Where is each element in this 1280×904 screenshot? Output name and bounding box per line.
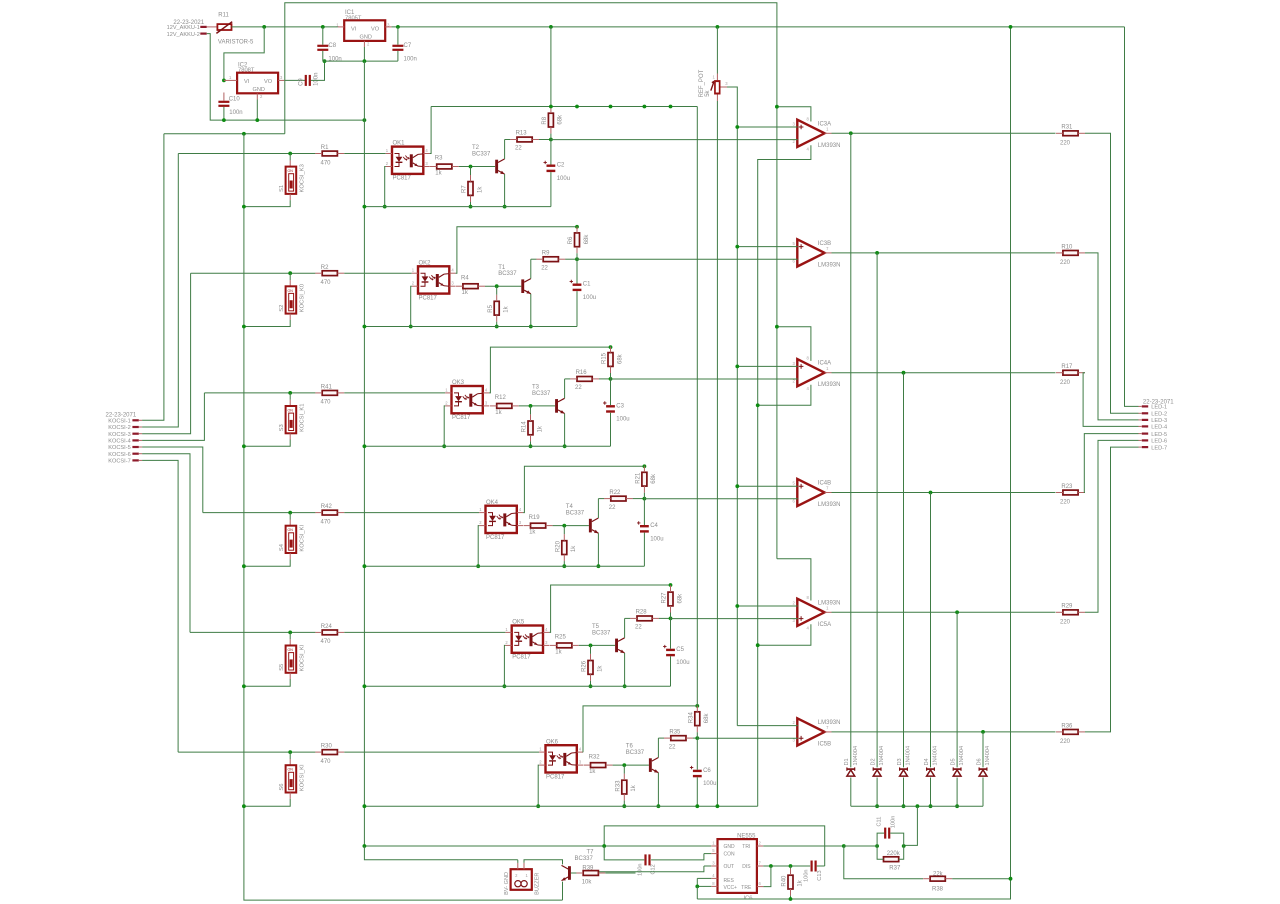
junction IC4A pin4 on GND bus [756, 403, 760, 407]
svg-text:S4: S4 [279, 543, 285, 551]
svg-text:LED-5: LED-5 [1151, 432, 1167, 438]
junction IC2 GND row [255, 118, 259, 122]
wire GND row ch6 [364, 805, 757, 807]
svg-text:BC337: BC337 [592, 630, 611, 636]
wire R39 to NE555 OUT [605, 872, 635, 874]
svg-text:KOCSI_K1: KOCSI_K1 [300, 404, 306, 432]
svg-text:BC337: BC337 [472, 152, 491, 158]
junction GND row / main GND vertical [363, 118, 367, 122]
text 12V_AKKU-1 [167, 25, 200, 31]
wire R11 to main 5V rail [232, 26, 1125, 28]
wire C11 branch [877, 833, 904, 846]
text battery connector name [173, 20, 204, 26]
svg-text:D5: D5 [951, 758, 957, 765]
junction D2 bottom row [875, 804, 879, 808]
svg-text:OK3: OK3 [452, 380, 465, 386]
wire R23 to LED-5 [1084, 434, 1138, 493]
wire T7 collector to buzzer [524, 860, 563, 865]
wire R40 to 5V run [790, 896, 792, 899]
junction rail collector node ch6 [695, 736, 699, 740]
svg-text:R21: R21 [636, 472, 642, 484]
pin KOCSI-4 [108, 439, 142, 445]
transistor T7 BC337 [562, 849, 595, 880]
transistor T1 BC337 [498, 265, 531, 294]
wire GND row ch5 [364, 685, 670, 687]
svg-text:VO: VO [264, 79, 273, 85]
svg-text:1k: 1k [495, 410, 502, 416]
wire R29 to LED-6 [1085, 440, 1139, 612]
pin KOCSI-6 [108, 452, 142, 458]
op-amp comparator IC4A LM393N [793, 359, 841, 388]
svg-text:R2: R2 [321, 265, 329, 271]
wire + ref input IC4B [737, 485, 798, 487]
wire rail segments ch5 [670, 585, 672, 686]
junction IC4A pin8 [775, 325, 779, 329]
junction R20 GND row [562, 564, 566, 568]
wire rail segments ch1 [550, 107, 552, 207]
ic IC1 7805T box [336, 10, 390, 47]
svg-text:68k: 68k [617, 353, 623, 364]
wire NE555 DIS pin [757, 865, 810, 867]
resistor R9 22 [536, 250, 565, 271]
junction IC5A pin4 on GND bus [756, 643, 760, 647]
wire signal input IC3A [551, 139, 798, 141]
junction emitter GND row ch6 [657, 804, 661, 808]
svg-text:R31: R31 [1061, 125, 1073, 131]
svg-text:R6: R6 [568, 236, 574, 244]
svg-text:KOCSI-3: KOCSI-3 [108, 432, 130, 438]
resistor R31 220 [1056, 125, 1085, 147]
wire KOCSI-7 riser [142, 460, 178, 752]
resistor R6 68k [568, 226, 590, 253]
pin KOCSI-5 [108, 445, 142, 451]
svg-text:68k: 68k [651, 473, 657, 484]
svg-text:C11: C11 [876, 817, 882, 827]
junction S5 bottom on S-bus [242, 684, 246, 688]
wire R16 to rail [599, 378, 611, 380]
wire REF_POT wiper [721, 87, 738, 726]
wire output IC3B [825, 252, 1056, 254]
wire GND loop over NE555 [604, 826, 825, 866]
wire Vcc distribution bus [431, 106, 697, 108]
svg-text:KOCSI_KI: KOCSI_KI [300, 764, 306, 791]
pin LED-2 [1139, 412, 1168, 418]
potentiometer REF_POT 5k [699, 69, 728, 97]
junction rail collector node ch3 [609, 377, 613, 381]
svg-text:100n: 100n [404, 56, 417, 62]
svg-text:1k: 1k [477, 186, 483, 193]
svg-text:R19: R19 [529, 515, 541, 521]
wire signal input IC4A [611, 378, 798, 380]
resistor R26 1k [582, 654, 604, 681]
wire T4 collector [597, 499, 599, 518]
junction GND row / main vertical ch2 [363, 325, 367, 329]
wire R26 to GND row [590, 645, 592, 686]
svg-text:C3: C3 [616, 403, 624, 409]
wire IC2 VI pin [224, 79, 237, 81]
svg-text:1N4004: 1N4004 [906, 746, 912, 766]
svg-text:C8: C8 [328, 43, 336, 49]
wire base node ch3 [519, 405, 555, 407]
svg-text:22: 22 [669, 744, 676, 750]
svg-text:100u: 100u [557, 176, 570, 182]
junction ch1 rail top [549, 25, 553, 29]
junction base node ch4 [562, 524, 566, 528]
junction GND row / main vertical ch4 [363, 564, 367, 568]
junction emitter GND row ch1 [503, 205, 507, 209]
resistor R14 1k [522, 414, 544, 441]
svg-text:68k: 68k [704, 713, 710, 724]
svg-text:1k: 1k [597, 665, 603, 672]
svg-text:KOCSI-5: KOCSI-5 [108, 445, 130, 451]
wire R22 to rail [633, 498, 645, 500]
svg-text:R40: R40 [782, 875, 788, 887]
svg-text:R15: R15 [602, 352, 608, 364]
capacitor C6 100u [690, 766, 717, 787]
svg-text:220: 220 [1060, 739, 1071, 745]
svg-text:PC817: PC817 [512, 655, 531, 661]
junction emitter GND row ch3 [563, 444, 567, 448]
wire R13 to rail [539, 139, 551, 141]
pin 12V_AKKU-1 [200, 26, 206, 28]
svg-text:R9: R9 [542, 250, 550, 256]
svg-text:LM393N: LM393N [818, 382, 841, 388]
svg-text:LM393N: LM393N [818, 143, 841, 149]
junction S3 bottom on S-bus [242, 444, 246, 448]
svg-text:100u: 100u [676, 660, 689, 666]
junction R14 GND row [529, 444, 533, 448]
resistor R20 1k [556, 534, 578, 561]
junction TRI node [842, 844, 846, 848]
svg-text:IC3A: IC3A [818, 121, 831, 127]
wire D1 vertical [850, 133, 852, 806]
wire input row left ch1 [178, 153, 315, 155]
wire GND row ch2 [364, 326, 577, 328]
transistor T2 BC337 [472, 145, 505, 174]
junction rail ch4 pin4 bus [643, 464, 647, 468]
wire C8 pins [322, 27, 324, 61]
diode D1 1N4004 [844, 746, 859, 776]
svg-text:ON: ON [288, 289, 294, 293]
junction base node ch3 [529, 404, 533, 408]
capacitor C12 100n [638, 854, 657, 876]
wire D3 vertical [903, 373, 905, 807]
svg-text:C6: C6 [703, 768, 711, 774]
svg-text:220: 220 [1060, 141, 1071, 147]
svg-text:D4: D4 [924, 758, 930, 765]
wire REF_POT bottom pin to ch6 GND row [716, 95, 718, 807]
junction emitter GND row ch5 [623, 684, 627, 688]
svg-text:470: 470 [321, 639, 332, 645]
svg-text:S3: S3 [279, 424, 285, 431]
wire base node ch1 [459, 166, 495, 168]
svg-text:100n: 100n [638, 863, 644, 875]
wire IC2 GND pin [256, 93, 258, 120]
junction rail ch2 pin4 bus [575, 225, 579, 229]
wire base node ch4 [553, 525, 589, 527]
buzzer BV-GND [504, 860, 541, 895]
op-amp comparator IC5B LM393N [793, 718, 841, 747]
wire OK6 pin4 riser to rail [583, 706, 697, 752]
resistor R5 1k [488, 295, 510, 322]
wire + ref input IC5B [737, 725, 798, 727]
junction rail collector node ch2 [575, 257, 579, 261]
svg-text:1k: 1k [555, 649, 562, 655]
junction D4 bottom row [929, 804, 933, 808]
svg-text:OK6: OK6 [546, 739, 559, 745]
junction diode row drop [916, 804, 920, 808]
svg-text:470: 470 [321, 280, 332, 286]
wire IC4A V+ pin8 [777, 327, 811, 361]
wire IC5A V+ pin8 [777, 559, 811, 601]
switch S3 KOCSI_K1 [244, 393, 306, 446]
junction wiper bus IC4A [735, 365, 739, 369]
svg-text:1k: 1k [571, 545, 577, 552]
resistor R39 10k [576, 866, 605, 886]
svg-text:PC817: PC817 [486, 535, 505, 541]
svg-text:R27: R27 [662, 592, 668, 604]
junction rail ch5 pin4 bus [669, 583, 673, 587]
svg-text:GND: GND [724, 844, 736, 850]
svg-text:OK2: OK2 [419, 260, 432, 266]
svg-text:R38: R38 [932, 886, 944, 892]
junction R7 GND row [469, 205, 473, 209]
wire main GND vertical [363, 61, 365, 846]
junction pin2 riser GND row ch5 [503, 684, 507, 688]
optocoupler OK1 PC817 [386, 141, 430, 182]
svg-text:ON: ON [288, 768, 294, 772]
wire OK5 pin2 to GND row [504, 645, 505, 686]
wire OK4 pin2 to GND row [478, 526, 479, 567]
junction D1 output tap [849, 131, 853, 135]
transistor T5 BC337 [592, 624, 625, 653]
wire + ref input IC5A [737, 605, 798, 607]
svg-text:BUZZER: BUZZER [534, 873, 540, 895]
svg-text:PC817: PC817 [546, 774, 565, 780]
svg-text:VI: VI [351, 26, 357, 32]
wire input row left ch3 [204, 392, 315, 394]
resistor R40 1k [782, 869, 804, 896]
svg-text:KOCSI_KI: KOCSI_KI [300, 524, 306, 551]
pin KOCSI-3 [108, 432, 142, 438]
resistor R30 470 [315, 744, 344, 765]
junction GND row / main vertical ch1 [363, 205, 367, 209]
svg-text:BC337: BC337 [532, 391, 551, 397]
junction base node ch1 [469, 165, 473, 169]
resistor R15 68k [602, 346, 624, 373]
svg-text:KOCSI-1: KOCSI-1 [108, 419, 130, 425]
svg-text:68k: 68k [677, 593, 683, 604]
wire KOCSI-1 riser [142, 134, 164, 421]
svg-text:LM393N: LM393N [818, 600, 841, 606]
svg-text:R29: R29 [1061, 604, 1073, 610]
switch S4 KOCSI_KI [244, 513, 306, 567]
svg-text:LM393N: LM393N [818, 262, 841, 268]
diode D6 1N4004 [976, 746, 991, 776]
svg-text:BC337: BC337 [498, 271, 517, 277]
capacitor C5 100u [663, 645, 690, 666]
svg-text:T5: T5 [592, 624, 600, 630]
pin LED-6 [1139, 439, 1168, 445]
wire R14 to GND row [530, 406, 532, 446]
wire input row left ch2 [191, 272, 316, 274]
junction D3 bottom row [902, 804, 906, 808]
wire R22 left [598, 498, 604, 500]
junction rail ch3 pin4 bus [609, 345, 613, 349]
wire D6 vertical [982, 732, 984, 806]
junction GND wire main vertical [363, 844, 367, 848]
wire KOCSI-3 riser [142, 273, 191, 434]
junction R40 bottom [789, 897, 793, 901]
svg-text:PC817: PC817 [393, 176, 412, 182]
wire T1 emitter to GND row [530, 294, 532, 327]
junction bus rail ch2 [575, 105, 579, 109]
wire 5V to LED-1 [1125, 27, 1139, 407]
svg-text:LED-7: LED-7 [1151, 445, 1167, 451]
junction bus rail ch4 [643, 105, 647, 109]
junction D3 output tap [902, 371, 906, 375]
svg-text:R1: R1 [321, 145, 329, 151]
svg-text:68k: 68k [558, 114, 564, 125]
wire R33 to GND row [623, 765, 625, 806]
svg-text:1N4004: 1N4004 [933, 746, 939, 766]
svg-text:IC3B: IC3B [818, 241, 831, 247]
resistor R17 220 [1056, 364, 1085, 386]
svg-text:OK4: OK4 [486, 500, 499, 506]
wire C9 to C8 bottom row [311, 61, 325, 80]
svg-text:22: 22 [515, 146, 522, 152]
junction wiper bus IC5A [735, 604, 739, 608]
wire C10 pins [223, 93, 225, 121]
svg-text:BC337: BC337 [575, 856, 594, 862]
capacitor C4 100u [637, 521, 664, 542]
svg-text:T3: T3 [532, 385, 540, 391]
junction wiper bus IC5B [0, 0, 2, 2]
svg-text:22: 22 [575, 385, 582, 391]
svg-text:R11: R11 [218, 13, 229, 19]
junction IC2-VI / C10 [222, 79, 226, 83]
svg-text:R41: R41 [321, 385, 333, 391]
text KOCSI connector name [106, 413, 137, 419]
svg-text:C5: C5 [676, 647, 684, 653]
svg-text:KOCSI-7: KOCSI-7 [108, 459, 130, 465]
resistor R38 22k [923, 872, 952, 893]
resistor R19 1k [524, 515, 553, 536]
svg-text:C2: C2 [557, 163, 565, 169]
junction GND row / main vertical ch5 [363, 684, 367, 688]
svg-text:R33: R33 [616, 780, 622, 792]
junction wiper bus IC3B [735, 245, 739, 249]
capacitor C11 100n [876, 816, 896, 839]
svg-text:C1: C1 [583, 282, 591, 288]
wire rail segments ch2 [576, 226, 578, 326]
wire input row ch1 [344, 153, 385, 155]
transistor T4 BC337 [566, 504, 599, 533]
svg-text:R25: R25 [555, 635, 567, 641]
wire input row left ch4 [203, 512, 316, 514]
svg-text:R37: R37 [889, 866, 901, 872]
svg-text:22: 22 [541, 265, 548, 271]
optocoupler OK4 PC817 [479, 500, 523, 541]
wire signal input IC3B [577, 258, 798, 260]
optocoupler OK6 PC817 [539, 739, 583, 780]
op-amp comparator IC5A LM393N [793, 599, 841, 628]
wire REF_POT top pin [716, 27, 718, 80]
resistor R29 220 [1056, 604, 1085, 626]
svg-text:R42: R42 [321, 504, 333, 510]
wire T7 base [571, 872, 577, 874]
junction S6 top [288, 750, 292, 754]
svg-text:IC4A: IC4A [818, 361, 831, 367]
svg-text:S1: S1 [279, 185, 285, 192]
junction REF_POT top [716, 25, 720, 29]
wire OK4 pin4 riser to rail [523, 466, 644, 512]
resistor R24 470 [315, 624, 344, 645]
svg-text:KOCSI-2: KOCSI-2 [108, 425, 130, 431]
wire D2 vertical [876, 253, 878, 806]
svg-text:LED-4: LED-4 [1151, 425, 1167, 431]
resistor R22 22 [604, 490, 633, 511]
resistor R34 68k [689, 705, 711, 732]
svg-text:7808T: 7808T [238, 68, 255, 74]
junction S6 bottom on S-bus [242, 804, 246, 808]
wire input row ch2 [344, 272, 411, 274]
svg-text:REF_POT: REF_POT [699, 69, 705, 97]
resistor R35 22 [664, 729, 693, 750]
junction 5V top [1009, 25, 1013, 29]
wire C7 pins [397, 27, 399, 61]
svg-text:R26: R26 [582, 660, 588, 672]
svg-text:IC4B: IC4B [818, 481, 831, 487]
pin LED-4 [1139, 425, 1168, 431]
junction D5 bottom row [955, 804, 959, 808]
junction C8 top [321, 25, 325, 29]
resistor R23 220 [1056, 484, 1085, 506]
wire IC2 VO pin [278, 79, 284, 81]
wire C13 right to GND loop [817, 865, 825, 867]
junction S1 bottom on S-bus [242, 205, 246, 209]
svg-text:470: 470 [321, 400, 332, 406]
svg-text:1k: 1k [537, 425, 543, 432]
optocoupler OK3 PC817 [445, 380, 489, 421]
svg-text:ON: ON [288, 169, 294, 173]
svg-text:R3: R3 [435, 156, 443, 162]
svg-text:R7: R7 [462, 185, 468, 193]
wire R17 to LED-4 [1083, 373, 1138, 427]
wire S common bus [244, 134, 563, 900]
wire R10 to LED-3 [1085, 253, 1139, 420]
svg-text:C13: C13 [817, 870, 823, 880]
junction D5 output tap [955, 610, 959, 614]
wire R9 to rail [565, 258, 577, 260]
svg-text:R5: R5 [488, 304, 494, 312]
wire ch1 rail upper [550, 27, 552, 107]
wire ch6 rail from bus corner [696, 107, 698, 706]
svg-text:DIS: DIS [742, 864, 751, 870]
wire signal input IC4B [644, 498, 797, 500]
wire IC3A V+ pin8 [777, 107, 811, 122]
svg-text:PC817: PC817 [419, 295, 438, 301]
junction timing right [902, 844, 906, 848]
wire OK2 pin2 to GND row [411, 286, 412, 326]
svg-text:LED-6: LED-6 [1151, 439, 1167, 445]
junction IC1 GND row [363, 59, 367, 63]
wire C8-C7 ground row [323, 60, 398, 62]
svg-text:100n: 100n [891, 816, 897, 828]
svg-text:OUT: OUT [724, 864, 735, 870]
svg-text:100n: 100n [314, 73, 320, 86]
wire R28 left [625, 617, 631, 619]
